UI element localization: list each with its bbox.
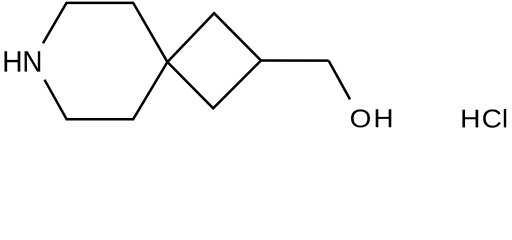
bond C2'-CH2	[261, 59, 329, 62]
atom label OH: O	[351, 109, 370, 127]
atom label OH: H	[376, 109, 392, 127]
HCl salt label: H	[462, 110, 478, 128]
bond CH2-O (clipped at OH label)	[329, 61, 350, 100]
cyclobutane ring (spiro at C4)	[167, 13, 261, 108]
HCl salt label: l	[504, 109, 506, 127]
HCl salt label: C	[483, 109, 501, 127]
piperidine ring: bonds C2-C3-C4(spiro)-C5-C6 and N-C bonds clipped at HN label	[43, 3, 167, 119]
atom label HN: N	[25, 51, 41, 71]
atom label HN: H	[5, 51, 21, 71]
